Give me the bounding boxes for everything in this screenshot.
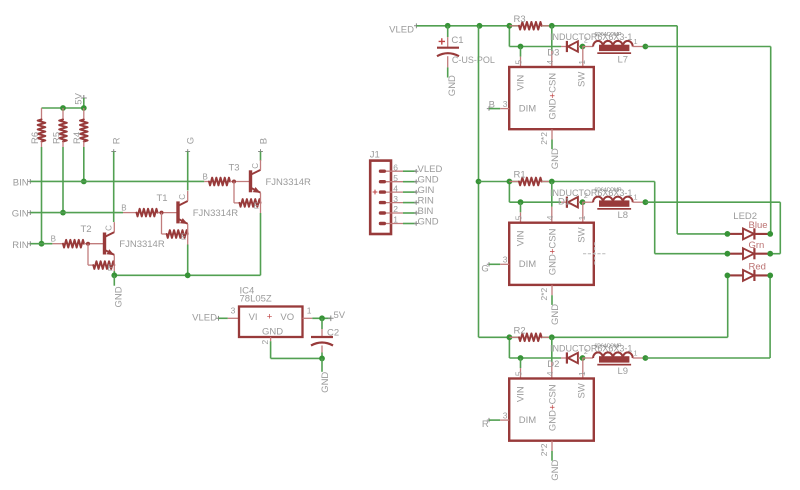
svg-text:2: 2	[584, 193, 588, 200]
svg-text:FJN3314R: FJN3314R	[119, 239, 165, 250]
driver pin 4 stub	[551, 51, 553, 67]
capacitor C2	[311, 318, 333, 358]
svg-text:2: 2	[584, 349, 588, 356]
driver pin 3 stub	[500, 419, 509, 421]
svg-text:GIN: GIN	[12, 209, 29, 220]
origin cross J1	[373, 190, 378, 195]
wire L9 out vertical	[769, 275, 771, 358]
svg-text:DIM: DIM	[519, 415, 537, 426]
svg-text:5: 5	[514, 215, 524, 220]
svg-text:R6: R6	[30, 132, 41, 144]
junction	[185, 272, 191, 278]
node G label	[481, 262, 491, 274]
svg-text:L9: L9	[618, 366, 629, 377]
node RIN label at J1	[414, 195, 434, 206]
svg-text:VIN: VIN	[516, 75, 527, 91]
wire C2 gnd stub	[321, 358, 323, 371]
driver pin 4 stub	[551, 207, 553, 223]
svg-text:2: 2	[393, 204, 398, 214]
junction	[111, 272, 117, 278]
svg-text:GND: GND	[447, 75, 458, 96]
svg-text:SW: SW	[576, 72, 587, 87]
svg-text:VLED: VLED	[192, 313, 217, 324]
svg-text:E: E	[181, 233, 186, 242]
svg-text:RIN: RIN	[418, 195, 435, 206]
wire GND stub	[551, 140, 553, 150]
svg-text:R4: R4	[72, 132, 83, 144]
svg-text:VLED: VLED	[418, 164, 443, 175]
node VLED label	[389, 23, 419, 35]
node B label	[487, 99, 495, 111]
svg-text:G: G	[481, 263, 488, 274]
svg-text:5V: 5V	[334, 310, 346, 321]
driver IC body (R3 channel)	[509, 67, 594, 129]
driver pin 3 stub	[500, 263, 509, 265]
svg-text:GND+CSN: GND+CSN	[547, 384, 558, 431]
svg-text:RIN: RIN	[12, 240, 29, 251]
svg-text:GND+CSN: GND+CSN	[547, 73, 558, 120]
driver pin 5 stub	[520, 57, 522, 67]
junction	[767, 273, 773, 279]
wire T3 emitter to GND	[260, 213, 262, 275]
junction	[518, 355, 524, 361]
junction	[725, 231, 731, 237]
supply 5V at IC4 output	[328, 310, 346, 321]
svg-text:R: R	[112, 137, 123, 144]
svg-text:GND: GND	[320, 372, 331, 393]
regulator IC4 pin 1 stub	[303, 317, 313, 319]
svg-text:GND: GND	[114, 286, 125, 307]
wire rail drop R3	[508, 26, 510, 47]
junction	[725, 273, 731, 279]
connector J1 pad pin 1	[379, 222, 403, 225]
svg-text:D1: D1	[558, 196, 570, 207]
wire VLED to Blue anode vertical	[676, 26, 678, 234]
svg-text:FJN3314R: FJN3314R	[193, 208, 239, 219]
driver pin 2 stub GND	[551, 129, 553, 139]
junction	[518, 44, 524, 50]
diode D3	[561, 41, 583, 52]
wire VLED rail b	[542, 25, 678, 27]
svg-text:6: 6	[393, 162, 398, 172]
svg-text:VLED: VLED	[389, 25, 414, 36]
svg-text:VO: VO	[280, 312, 294, 323]
svg-text:C2: C2	[327, 327, 339, 338]
svg-text:1: 1	[307, 306, 312, 316]
svg-text:5: 5	[514, 371, 524, 376]
svg-text:E: E	[254, 202, 259, 211]
junction	[767, 231, 773, 237]
driver pin 5 stub	[520, 368, 522, 378]
svg-text:R1: R1	[514, 170, 526, 181]
junction	[725, 251, 731, 257]
svg-text:1: 1	[634, 195, 638, 202]
wire J1 pin 3	[403, 202, 417, 204]
svg-text:4: 4	[545, 371, 555, 376]
wire L8 out to Grn cathode	[770, 253, 780, 255]
junction	[319, 356, 325, 362]
node RIN label	[12, 240, 32, 251]
wire IC4 gnd right	[271, 357, 322, 359]
wire VIN pin drop	[520, 47, 522, 57]
svg-text:3: 3	[503, 411, 508, 421]
svg-text:R2: R2	[514, 325, 526, 336]
inductor L8	[583, 197, 646, 210]
svg-text:4: 4	[393, 183, 398, 193]
svg-text:T3: T3	[229, 163, 240, 174]
driver pin 1 stub SW	[582, 47, 584, 68]
wire IC4 gnd down	[270, 341, 272, 358]
wire rail block2 b	[542, 181, 655, 183]
svg-text:GND: GND	[418, 175, 439, 186]
svg-text:1: 1	[577, 60, 587, 65]
junction	[549, 179, 555, 185]
svg-text:Red: Red	[749, 262, 766, 273]
junction	[549, 23, 555, 29]
op IC4 pin 3 stub	[228, 317, 239, 319]
resistor R6	[30, 108, 46, 147]
svg-text:DIM: DIM	[519, 259, 537, 270]
svg-text:C: C	[178, 194, 187, 200]
svg-text:T2: T2	[81, 224, 92, 235]
junction	[549, 334, 555, 340]
wire DIM input	[489, 108, 500, 110]
inductor L7	[583, 41, 646, 54]
svg-text:VIN: VIN	[516, 386, 527, 402]
svg-text:E: E	[107, 264, 112, 273]
svg-text:GND: GND	[550, 148, 561, 169]
svg-text:C: C	[251, 163, 260, 169]
wire GND stub	[551, 295, 553, 305]
driver pin 1 stub SW	[582, 202, 584, 223]
svg-text:78L05Z: 78L05Z	[240, 294, 272, 305]
svg-text:Grn: Grn	[749, 240, 765, 251]
wire L9 out	[645, 357, 770, 359]
svg-text:GND: GND	[550, 460, 561, 481]
wire VIN feed	[509, 357, 561, 359]
svg-text:FJN3314R: FJN3314R	[266, 177, 312, 188]
svg-text:C-US-POL: C-US-POL	[452, 55, 495, 65]
svg-text:1: 1	[393, 215, 398, 225]
wire VLED to Blue anode horiz	[677, 233, 727, 235]
origin crosshair	[583, 242, 606, 265]
svg-text:GND: GND	[550, 304, 561, 325]
supply +5V symbol	[73, 92, 87, 104]
wire J1 pin 4	[403, 191, 417, 193]
svg-text:+: +	[267, 311, 273, 322]
svg-text:3: 3	[503, 99, 508, 109]
wire R vertical	[113, 152, 115, 223]
svg-text:D2: D2	[547, 359, 559, 370]
resistor R1	[509, 178, 551, 186]
junction	[767, 251, 773, 257]
svg-text:6D64COMP: 6D64COMP	[595, 343, 623, 349]
wire L7 out vertical	[770, 47, 772, 234]
node G label	[185, 137, 196, 154]
wire DIM input	[489, 419, 500, 421]
wire T1 emitter to GND	[187, 245, 189, 276]
svg-text:3: 3	[231, 306, 236, 316]
junction	[476, 179, 482, 185]
diode D2	[561, 352, 583, 363]
svg-text:L8: L8	[618, 210, 629, 221]
wire L8 out	[645, 201, 780, 203]
svg-text:3: 3	[503, 255, 508, 265]
wire rail block3 b	[542, 336, 728, 338]
regulator IC4 body	[239, 307, 303, 338]
wire RIN	[30, 243, 52, 245]
resistor R5	[51, 108, 67, 147]
wire J1 pin 6	[403, 170, 417, 172]
wire G vertical	[187, 152, 189, 191]
svg-text:VIN: VIN	[516, 230, 527, 246]
transistor T3	[203, 160, 261, 213]
svg-text:R3: R3	[514, 14, 526, 25]
junction	[477, 23, 483, 29]
svg-text:C1: C1	[451, 35, 463, 46]
svg-text:SW: SW	[576, 227, 587, 242]
resistor R3	[509, 22, 551, 30]
svg-text:B: B	[51, 235, 56, 244]
junction	[507, 179, 513, 185]
node BIN label	[13, 178, 33, 189]
wire GND net left	[114, 274, 260, 276]
junction	[643, 44, 649, 50]
node R label	[482, 418, 491, 430]
wire Grn anode horiz	[655, 253, 728, 255]
connector J1 pad pin 5	[379, 180, 403, 183]
wire BIN	[30, 180, 204, 182]
wire 5V to rail	[83, 98, 85, 108]
svg-text:G: G	[186, 137, 197, 144]
regulator IC4 pin 2 stub	[270, 337, 272, 341]
svg-text:J1: J1	[370, 150, 380, 161]
resistor R4	[72, 108, 88, 147]
svg-text:R: R	[482, 419, 489, 430]
driver pin 3 stub	[500, 108, 509, 110]
junction	[643, 355, 649, 361]
LED Blue of LED2	[727, 228, 770, 239]
connector J1 body	[370, 161, 391, 234]
junction	[507, 334, 513, 340]
wire R5 down	[62, 147, 64, 213]
svg-text:2*2: 2*2	[539, 287, 549, 300]
svg-text:Blue: Blue	[749, 220, 768, 231]
driver pin 5 stub	[520, 212, 522, 222]
svg-text:D3: D3	[547, 48, 559, 59]
LED Grn of LED2	[727, 248, 770, 259]
svg-text:T1: T1	[157, 193, 168, 204]
svg-text:1: 1	[634, 351, 638, 358]
junction	[81, 179, 87, 185]
junction	[580, 44, 586, 50]
LED Red of LED2	[727, 270, 770, 281]
wire rail drop R1	[508, 182, 510, 203]
svg-text:6D64COMP: 6D64COMP	[595, 188, 623, 194]
wire Red anode vertical	[727, 275, 729, 337]
svg-text:5: 5	[514, 60, 524, 65]
svg-text:2*2: 2*2	[539, 132, 549, 145]
svg-text:4: 4	[545, 60, 555, 65]
connector J1 pad pin 3	[379, 201, 403, 204]
node VLED label at IC4	[192, 313, 221, 324]
wire J1 pin 5	[403, 181, 417, 183]
svg-text:GND: GND	[262, 326, 283, 337]
driver pin 2 stub GND	[551, 441, 553, 451]
wire DIM input	[489, 263, 500, 265]
svg-text:5V: 5V	[73, 92, 84, 104]
wire R4 down	[83, 147, 85, 181]
wire GND stub	[551, 451, 553, 461]
wire CSN pin4 net	[551, 182, 553, 207]
wire T2 emitter to GND	[113, 271, 115, 275]
svg-text:GIN: GIN	[418, 185, 435, 196]
capacitor C1	[437, 26, 459, 78]
driver pin 4 stub	[551, 362, 553, 378]
wire VLED to IC4	[219, 317, 228, 319]
svg-text:2: 2	[260, 340, 270, 345]
wire R6 down	[41, 147, 43, 244]
wire L7 out	[645, 46, 770, 48]
svg-text:B: B	[258, 138, 269, 144]
junction	[580, 199, 586, 205]
node GND label at J1	[414, 175, 439, 186]
wire L8 out vertical	[779, 202, 781, 254]
node GND label at J1	[414, 216, 439, 227]
wire VIN pin drop	[520, 202, 522, 212]
junction	[39, 241, 45, 247]
transistor T2	[51, 222, 115, 273]
junction	[507, 23, 513, 29]
svg-text:2*2: 2*2	[539, 443, 549, 456]
node BIN label at J1	[414, 206, 433, 217]
wire CSN pin4 net	[551, 337, 553, 362]
driver IC body (R2 channel)	[509, 379, 594, 441]
node GIN label	[12, 209, 33, 220]
svg-text:6D64COMP: 6D64COMP	[595, 32, 623, 38]
svg-text:GND+CSN: GND+CSN	[547, 228, 558, 275]
svg-text:DIM: DIM	[519, 103, 537, 114]
wire J1 pin 2	[403, 212, 417, 214]
svg-text:1: 1	[577, 371, 587, 376]
svg-text:R5: R5	[51, 132, 62, 144]
wire VIN pin drop	[520, 358, 522, 368]
node B label	[258, 138, 269, 154]
wire VLED rail a	[416, 25, 519, 27]
driver pin 2 stub GND	[551, 285, 553, 295]
wire GND stub	[113, 275, 115, 285]
svg-text:BIN: BIN	[13, 178, 29, 189]
wire GIN	[30, 212, 123, 214]
wire B vertical	[260, 152, 262, 161]
wire VIN feed	[509, 201, 561, 203]
junction	[643, 199, 649, 205]
inductor L9	[583, 352, 646, 365]
connector J1 pad pin 6	[379, 170, 403, 173]
svg-text:GND: GND	[418, 216, 439, 227]
wire rail block3 a	[479, 336, 520, 338]
wire CSN pin4 net	[551, 26, 553, 51]
junction	[445, 23, 451, 29]
svg-text:VI: VI	[249, 312, 258, 323]
junction	[60, 105, 66, 111]
wire VLED rail vertical	[478, 26, 480, 338]
junction	[81, 105, 87, 111]
junction	[580, 355, 586, 361]
wire rail block2 a	[479, 181, 520, 183]
wire J1 pin 1	[403, 223, 417, 225]
svg-text:C: C	[105, 225, 114, 231]
transistor T1	[121, 191, 187, 245]
node GIN label at J1	[414, 185, 435, 196]
svg-text:L7: L7	[618, 55, 629, 66]
svg-text:1: 1	[634, 39, 638, 46]
wire Grn anode vertical	[654, 182, 656, 254]
svg-text:4: 4	[545, 215, 555, 220]
driver pin 1 stub SW	[582, 358, 584, 379]
connector J1 pad pin 2	[379, 211, 403, 214]
wire VIN feed	[509, 46, 561, 48]
wire 5V rail	[42, 107, 84, 109]
svg-text:5: 5	[393, 173, 398, 183]
node VLED label at J1	[414, 164, 442, 175]
svg-text:B: B	[121, 204, 126, 213]
diode D1	[561, 197, 583, 208]
junction	[60, 210, 66, 216]
svg-text:1: 1	[577, 215, 587, 220]
wire rail drop R2	[508, 337, 510, 358]
svg-text:SW: SW	[576, 383, 587, 398]
svg-text:3: 3	[393, 194, 398, 204]
junction	[319, 315, 325, 321]
svg-text:B: B	[203, 173, 208, 182]
junction	[518, 199, 524, 205]
svg-text:2: 2	[584, 37, 588, 44]
node R label	[111, 137, 122, 154]
driver IC body (R1 channel)	[509, 223, 594, 285]
resistor R2	[509, 334, 551, 342]
connector J1 pad pin 4	[379, 190, 403, 193]
wire IC4 out to 5V	[312, 317, 330, 319]
svg-text:BIN: BIN	[418, 206, 434, 217]
